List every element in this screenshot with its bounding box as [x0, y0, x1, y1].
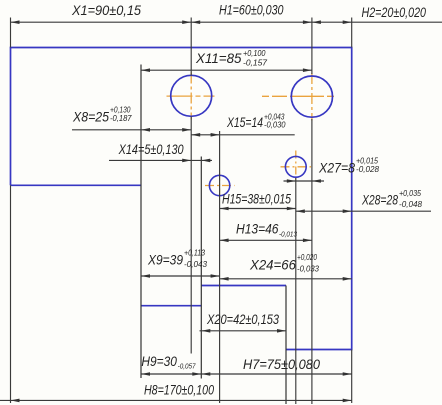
- centerline vertical hole A: [219, 173, 221, 199]
- svg-text:-0,028: -0,028: [356, 165, 380, 174]
- svg-text:H1=60±0,030: H1=60±0,030: [219, 2, 284, 18]
- svg-text:H2=20±0,020: H2=20±0,020: [362, 4, 427, 20]
- extension line x=219.6 hole A center: [219, 131, 221, 403]
- svg-text:-0,187: -0,187: [110, 114, 132, 123]
- dimension X9=39: [141, 275, 220, 277]
- svg-text:H15=38±0,015: H15=38±0,015: [222, 191, 291, 207]
- dimension X8=25: [72, 129, 191, 131]
- svg-text:+0,113: +0,113: [184, 249, 205, 258]
- hole circle A: [209, 175, 229, 195]
- svg-text:X9=39: X9=39: [147, 252, 183, 268]
- dimension X27=8: [284, 180, 325, 182]
- extension line x=201.3 step edge: [200, 157, 202, 379]
- extension line x=295.8 hole B center: [295, 178, 297, 404]
- dimension X20=42: [200, 330, 287, 332]
- svg-text:X15=14: X15=14: [226, 114, 263, 130]
- dimension X15=14: [191, 134, 295, 136]
- centerline vertical hole C1: [190, 73, 192, 120]
- svg-text:-0,013: -0,013: [279, 230, 298, 239]
- svg-text:H7=75±0,080: H7=75±0,080: [243, 356, 320, 372]
- svg-text:H9=30: H9=30: [141, 353, 177, 369]
- dimension H15=38: [220, 208, 296, 210]
- extension line x=191.2 hole C1 center: [190, 18, 192, 76]
- dimension X14=5: [109, 159, 212, 161]
- centerline vertical hole B: [295, 151, 297, 181]
- extension line x=311.9 hole C2 center: [311, 18, 313, 75]
- part outline: [11, 48, 352, 350]
- dimension line row H9 H7: [141, 373, 352, 375]
- svg-text:-0,057: -0,057: [178, 362, 197, 371]
- svg-text:X14=5±0,130: X14=5±0,130: [118, 141, 184, 157]
- extension line x=286 notch edge: [285, 286, 287, 405]
- svg-text:-0,030: -0,030: [264, 121, 286, 130]
- extension line x=141 step edge: [140, 65, 142, 379]
- svg-text:+0,035: +0,035: [399, 189, 421, 198]
- svg-text:+0,100: +0,100: [243, 49, 266, 58]
- extension line x=351.7 right edge: [351, 18, 353, 48]
- svg-text:-0,033: -0,033: [297, 265, 320, 274]
- svg-text:X28=28: X28=28: [361, 192, 398, 208]
- svg-text:X11=85: X11=85: [195, 50, 242, 66]
- centerline horizontal through holes C1 C2: [167, 95, 215, 97]
- centerline horizontal hole B: [281, 166, 312, 168]
- centerline vertical hole C2: [311, 73, 313, 121]
- svg-text:X8=25: X8=25: [72, 109, 109, 125]
- dimension X24=66: [220, 278, 352, 280]
- svg-text:-0,043: -0,043: [184, 260, 208, 269]
- svg-text:X27=8: X27=8: [318, 160, 355, 176]
- dimension H8=170: [0, 399, 352, 401]
- hole circle C2: [291, 76, 332, 117]
- svg-text:H8=170±0,100: H8=170±0,100: [144, 382, 214, 398]
- dimension X28=28: [296, 210, 431, 212]
- svg-text:X20=42±0,153: X20=42±0,153: [206, 311, 279, 327]
- svg-text:+0,020: +0,020: [297, 253, 317, 262]
- svg-text:H13=46: H13=46: [236, 221, 279, 237]
- svg-text:-0,157: -0,157: [243, 59, 268, 68]
- dimension line top row X1 H1 H2: [11, 21, 442, 23]
- dimension X11=85: [141, 69, 312, 71]
- svg-text:X24=66: X24=66: [249, 257, 296, 273]
- hole circle C1: [171, 75, 212, 116]
- centerline horizontal hole A: [205, 185, 235, 187]
- svg-text:X1=90±0,15: X1=90±0,15: [71, 2, 141, 18]
- hole circle B: [285, 156, 306, 177]
- dimension H13=46: [220, 239, 312, 241]
- svg-text:-0,048: -0,048: [399, 200, 423, 209]
- extension line left edge x=10.5: [10, 18, 12, 48]
